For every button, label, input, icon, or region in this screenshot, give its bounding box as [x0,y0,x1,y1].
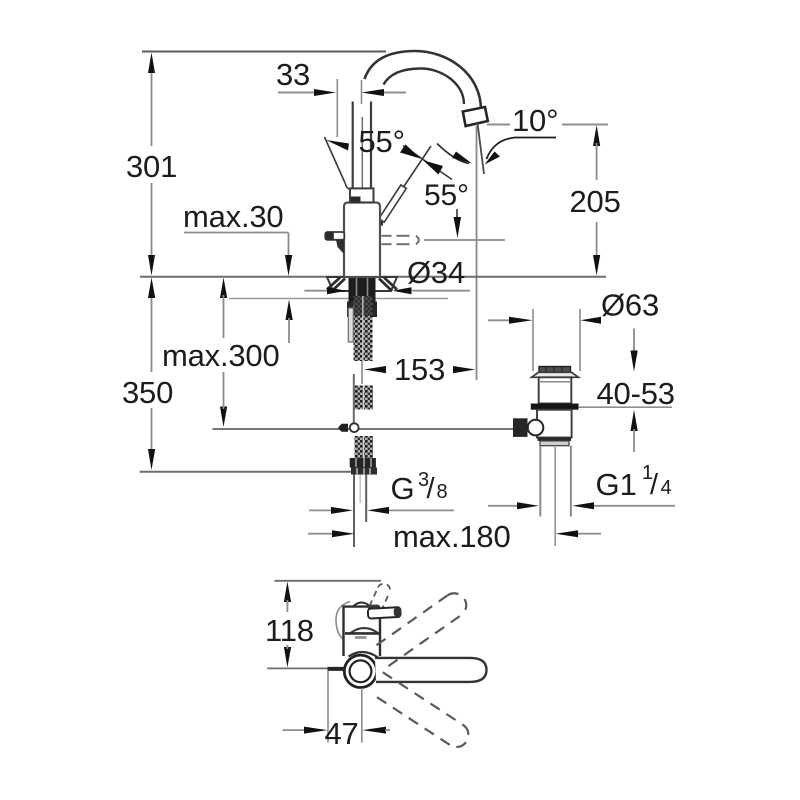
drain plug cap [539,367,571,374]
lever pivot nub [378,217,384,226]
svg-text:G: G [391,471,415,506]
spout outlet (tilted) [463,107,488,126]
svg-text:G1: G1 [596,467,637,502]
svg-text:47: 47 [325,716,359,751]
svg-text:55°: 55° [359,124,405,159]
top view: base arc above circle [349,652,379,658]
G1-1/4 arrow left (points right) [517,502,539,509]
10 deg dim line right segment [562,124,608,126]
10 deg left arc [437,144,469,164]
mounting nut [347,302,377,318]
tailpipe right edge [570,446,572,517]
dimension 301 arrow down [148,255,155,276]
lever closed dashed end cap [416,236,419,244]
40-53 upper arrow (down) [631,351,638,372]
svg-text:Ø63: Ø63 [601,288,659,323]
pull rod vertical [353,374,355,423]
G1-1/4 dim line left [488,505,519,507]
top view: body outline [344,607,381,656]
outlet vertical reference line [476,126,478,380]
max.30 lower arrow shaft [288,318,290,343]
drain neck [539,377,572,403]
dia34 arrow right (points left) [392,287,411,294]
10 deg dim line left segment [487,124,510,126]
40-53 lower arrow shaft [633,429,635,452]
spout outer arc [365,51,482,110]
dimension 118 arrows [284,582,291,603]
svg-text:/: / [650,469,659,501]
max.180 dim line right [578,533,601,535]
hose end nut [350,458,376,468]
braided hose lower section [355,436,374,458]
55deg no.1 arrowhead lower (points up-left) [423,160,443,174]
svg-text:max.180: max.180 [393,519,511,554]
top view: swivel inner circle [350,660,372,682]
top view: lever pad arc [351,628,378,633]
faucet body [344,203,380,278]
svg-text:8: 8 [437,481,448,503]
svg-text:Ø34: Ø34 [407,255,465,290]
svg-text:/: / [427,473,436,505]
40-53 lower reference line [579,406,673,408]
dimension 40-53 upper line [633,329,635,353]
dimension 33 arrow left [314,89,336,96]
svg-text:max.300: max.300 [162,338,280,373]
lever closed dashed outline top [382,236,410,244]
dimension 47 extension lines [327,671,329,743]
svg-text:55°: 55° [424,179,469,212]
outlet tilted stream line [478,123,485,174]
deck top line [140,276,606,278]
10 deg right arrowhead [485,152,501,165]
dimension 350 arrow up [148,278,155,299]
dimension 153 arrow right (tip at outlet line) [453,366,475,373]
top view: body right edge [379,611,381,656]
max.30 leader vertical [288,233,290,257]
escutcheon dome [327,277,397,291]
top view: lever front line [345,632,380,635]
40-53 lower arrow (up) [631,410,638,431]
dimension 350 line [151,295,153,450]
rod ball at hose [350,423,359,432]
braided hose mid section [355,386,374,410]
dia63 arrow left [509,317,533,324]
hose end fitting [351,468,377,475]
lever closed centerline [424,239,505,241]
rod knob [338,424,348,432]
G1-1/4 dim line right [594,505,675,507]
G3/8 dim line left [309,509,332,511]
max.30 lower arrow (up) [286,300,293,321]
top reference line (spout top / 301 datum) [142,51,386,53]
dimension 153 centerline ext [361,356,363,384]
10 deg left arrowhead [452,152,472,164]
10 deg black leader under text [487,138,557,160]
dimension 33 arrow right [362,89,385,96]
top view: knob connector dark [368,605,379,611]
svg-text:205: 205 [570,184,621,219]
svg-text:4: 4 [661,477,672,499]
dia63 dim line left [488,319,510,321]
lever raised outline [379,185,407,222]
top view: cartridge bump [354,603,370,607]
top view: lever knob cylinder [368,607,402,619]
mounting shank through deck (dark) [349,277,376,303]
47 dim line right [385,729,390,731]
deck underside line [229,298,448,300]
dia63 arrow right [581,317,602,324]
lever closed (solid, pointing left) [325,232,344,240]
tailpipe left edge [539,446,541,517]
rod clamp at drain [513,418,528,437]
G3/8 pipe center faint [359,475,361,504]
svg-text:40-53: 40-53 [597,376,675,411]
max.30 upper arrow (down) [285,255,292,276]
escutcheon hatch left [327,278,345,292]
dimension 205 line [596,143,598,258]
dimension 350 arrow down [148,449,155,470]
max.180 arrow right (points left) [555,530,578,537]
47 dim line left [283,729,305,731]
118 top reference line [274,580,381,582]
top view: left flank arc [336,602,350,640]
top view: solid spout [375,658,487,682]
dia34 arrow left (points right) [327,287,346,294]
G1-1/4 arrow right (points left) [572,502,594,509]
dimension 33 line left [278,92,315,94]
dimension max.300 line [223,295,225,338]
spout inner arc [384,69,465,105]
47 arrow right (points left) [362,727,386,734]
top view: dashed raised knob [370,584,391,611]
shank highlights [356,277,358,301]
top view: logo tick [355,636,367,639]
svg-text:10°: 10° [512,103,558,138]
dimension max.300 arrows [220,278,227,299]
G3/8 pipe left edge [353,475,355,548]
drain body [537,410,572,438]
lower washer striped [540,441,569,446]
braided hose upper section [354,296,373,361]
55deg no.1 arrowhead upper (points down-right) [400,145,421,159]
escutcheon hatch right [379,278,397,292]
max.30 leader underline [184,232,289,234]
G3/8 dim line right [389,509,454,511]
55deg no.1 left leader hook [346,184,352,190]
dimension 301 vertical line [151,70,153,258]
neck thread line [539,381,571,383]
max.180 arrow left (points right) [332,530,355,537]
top view: swivel outer circle [344,655,376,687]
dimension 205 top arrow [593,125,600,146]
dimension 33 line right [384,92,406,94]
dimension 153 arrow left (tip at centerline) [364,366,386,373]
drain body bottom cap [538,438,572,441]
118 bottom reference line [267,667,327,669]
G3/8 arrow right (points left) [367,507,389,514]
dimension 118 line [286,600,288,612]
collar dark block [351,197,361,203]
350 bottom reference line [140,471,351,473]
collar below pipe [350,188,374,202]
rubber washer (black) [531,404,579,410]
lever root dark wedge [336,240,344,254]
dimension 205 bottom arrow [593,255,600,276]
55deg no.1 cross line [403,146,452,180]
top view: dashed spout up-right [377,593,467,666]
55deg no.2 down arrow shaft [456,209,458,222]
dimension 33 left extension line [336,79,338,137]
G3/8 pipe right edge [365,475,367,523]
drain flange [532,372,579,377]
dia34 dim line right [411,290,470,292]
svg-text:33: 33 [276,57,310,92]
55deg no.1 left arrowhead [326,140,349,151]
47 arrow left (points right) [304,727,328,734]
svg-text:max.30: max.30 [183,199,283,234]
lever end cap dark [325,232,334,239]
clamp ball [528,420,544,436]
55deg no.2 down arrowhead [454,217,462,238]
mounting stud strip [348,308,353,342]
svg-text:301: 301 [126,149,177,184]
G3/8 arrow left (points right) [331,507,353,514]
lever raised axis line [380,146,431,222]
dia34 dim line left [304,290,329,292]
55deg no.1 left leader line [325,137,346,184]
top view: dashed spout down-right [377,672,468,747]
dimension 301 arrow up [148,53,155,74]
svg-text:153: 153 [394,352,445,387]
118 bottom line dark segment [328,667,345,671]
svg-text:350: 350 [122,375,173,410]
dimension 33 right extension tick [361,80,363,104]
pop-up rod horizontal [213,428,514,430]
drain centerline [554,447,556,546]
spout vertical pipe [353,102,371,189]
svg-text:118: 118 [265,613,314,648]
max.180 dim line left [308,533,333,535]
drain: dia63 extension lines [532,309,534,371]
